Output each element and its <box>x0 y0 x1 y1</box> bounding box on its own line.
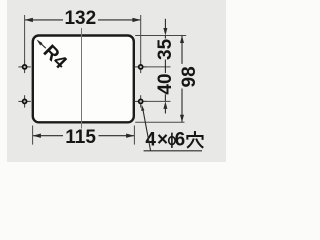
svg-text:×: × <box>157 130 168 151</box>
dim 115 dimension line <box>33 135 134 137</box>
R4 leader arrow <box>37 39 46 48</box>
hole upper-right <box>135 61 147 73</box>
hole lower-left <box>18 95 30 107</box>
dim 132: dimension line <box>25 19 140 21</box>
right extension lines <box>135 36 186 123</box>
dim 132 arrowheads <box>25 18 141 22</box>
dim 132: extension lines down to upper holes <box>24 15 26 62</box>
hole lower-right <box>135 95 147 107</box>
leader to lower-right hole <box>143 110 151 151</box>
svg-text:98: 98 <box>179 66 200 87</box>
svg-text:115: 115 <box>65 127 96 148</box>
panel cutout rounded rectangle <box>33 36 134 123</box>
gray drawing background <box>0 0 226 162</box>
label underline <box>144 150 202 152</box>
svg-text:6: 6 <box>175 130 186 151</box>
kanji "ana" (hole) drawn as strokes <box>187 131 203 148</box>
phi symbol <box>169 133 175 148</box>
dim 35/40 line <box>164 19 166 114</box>
hole upper-left <box>18 61 30 73</box>
svg-text:40: 40 <box>155 73 176 94</box>
svg-text:132: 132 <box>64 8 96 29</box>
vertical centerline <box>81 28 83 129</box>
dim 98 line <box>181 36 183 123</box>
dim 115 extension lines <box>32 126 34 145</box>
svg-text:35: 35 <box>155 38 176 60</box>
